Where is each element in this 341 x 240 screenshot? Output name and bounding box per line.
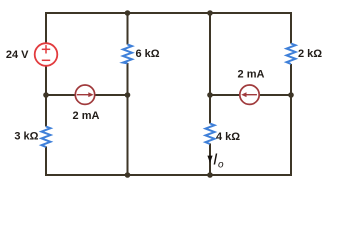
resistor 4 kOhm xyxy=(206,124,215,145)
current source I2 2 mA (arrow left) xyxy=(240,85,259,104)
resistor 3 kOhm xyxy=(42,127,51,148)
wire 6k branch upper xyxy=(127,13,129,45)
wire 4k branch lower xyxy=(209,144,211,176)
svg-text:3 kΩ: 3 kΩ xyxy=(14,131,38,143)
svg-text:24 V: 24 V xyxy=(6,49,29,61)
wire left branch between source and middle rail xyxy=(45,66,47,127)
current arrow Io xyxy=(207,156,212,163)
junction node bottom at 4k branch xyxy=(207,172,213,178)
junction node top at 6k branch xyxy=(125,10,131,16)
svg-text:2 mA: 2 mA xyxy=(73,110,100,122)
junction node bottom at 6k branch xyxy=(125,172,131,178)
wire bottom rail xyxy=(45,174,292,176)
resistor 2 kOhm xyxy=(287,44,296,65)
svg-text:4 kΩ: 4 kΩ xyxy=(216,131,240,143)
wire top rail xyxy=(45,12,292,14)
wire right branch upper xyxy=(290,12,292,44)
junction node top at 4k branch xyxy=(207,10,213,16)
junction node right middle xyxy=(288,92,294,98)
svg-text:2 mA: 2 mA xyxy=(238,69,265,81)
wire 6k branch lower to bottom rail xyxy=(127,63,129,175)
voltage source V1 24 V xyxy=(35,43,58,66)
current source I1 2 mA (arrow right) xyxy=(75,85,94,104)
wire left branch upper xyxy=(45,12,47,44)
wire right branch lower xyxy=(290,64,292,176)
wire 4k branch upper xyxy=(209,13,211,124)
junction node 4k top middle xyxy=(207,92,213,98)
junction node 6k bottom middle xyxy=(125,92,131,98)
svg-text:6 kΩ: 6 kΩ xyxy=(136,48,160,60)
wire left branch lower xyxy=(45,147,47,177)
svg-text:2 kΩ: 2 kΩ xyxy=(298,48,322,60)
svg-text:o: o xyxy=(218,160,224,171)
wire middle rail left segment xyxy=(46,94,76,96)
junction node left middle xyxy=(43,92,49,98)
wire middle rail right segment xyxy=(210,94,240,96)
resistor 6 kOhm xyxy=(123,45,132,64)
